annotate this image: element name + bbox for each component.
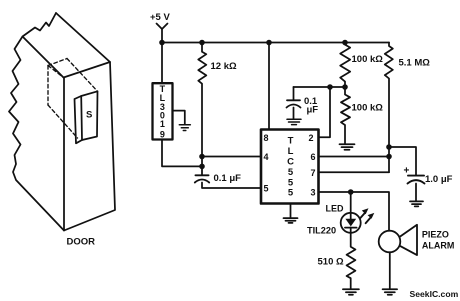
wire +5V rail [162,42,389,44]
wire pin 2 [318,87,330,137]
ground TL3019 [179,125,190,131]
svg-text:DOOR: DOOR [67,237,96,248]
node 1.0uF branch [386,144,392,150]
svg-text:2: 2 [309,133,314,143]
resistor 100k lower [341,88,350,144]
capacitor 0.1uF (pin 5) [195,175,261,188]
svg-text:6: 6 [311,152,316,162]
svg-text:100 kΩ: 100 kΩ [352,54,384,65]
svg-text:7: 7 [311,168,316,178]
capacitor 0.1uF (control) [287,87,301,119]
piezo alarm [379,225,417,255]
svg-text:C: C [287,157,294,168]
wire TL3019 output [162,140,202,167]
svg-text:TIL220: TIL220 [307,226,336,236]
svg-text:T: T [288,136,294,147]
wire TL3019 ground branch [173,111,185,125]
node TL3019 output junction [199,164,205,170]
svg-text:3: 3 [311,188,316,198]
LED TIL220 [341,192,361,233]
svg-text:1.0 μF: 1.0 μF [425,174,453,185]
wire control cap to pin2 node [294,86,331,88]
svg-text:4: 4 [264,152,269,162]
wire rail to pin 8 [266,40,272,130]
op-amp U1 TLC555 [261,130,319,204]
wire junction to 100k chain [330,86,345,88]
wire rail to TL3019 [161,43,163,84]
ground piezo [383,289,398,295]
sensor TL3019 [153,83,173,139]
node +5V [157,24,168,46]
svg-text:8: 8 [264,133,269,143]
wire pin 7 [318,171,389,173]
svg-text:μF: μF [307,105,319,116]
svg-text:9: 9 [160,130,165,140]
svg-text:5.1 MΩ: 5.1 MΩ [399,58,431,69]
svg-text:100 kΩ: 100 kΩ [352,103,384,114]
node 100k junction [342,84,348,90]
svg-text:12 kΩ: 12 kΩ [211,61,237,72]
svg-text:LED: LED [326,204,345,214]
resistor 510 [347,233,356,289]
door outline [9,13,115,231]
svg-text:+5 V: +5 V [150,12,170,23]
svg-text:1: 1 [160,119,165,129]
wire pin 4 [202,156,261,158]
label TL3019 [160,84,166,140]
svg-text:5: 5 [288,167,294,178]
ground 0.1uF control [287,119,301,124]
resistor 100k upper [340,40,350,88]
ground 100k lower [340,144,355,150]
node pin4 junction [199,154,205,160]
label TLC555 [287,136,294,199]
magnet S [75,91,98,143]
svg-text:L: L [288,146,294,157]
svg-text:+: + [404,166,410,177]
LED light arrows [360,208,375,223]
svg-text:0.1 μF: 0.1 μF [214,173,242,184]
resistor 5.1M [385,43,393,173]
svg-text:PIEZO: PIEZO [422,230,449,240]
wire pin 3 [318,192,389,231]
wire to 1.0uF [389,147,416,176]
ground IC [284,204,298,223]
node pin6 junction [386,154,392,160]
svg-text:5: 5 [288,188,294,199]
ground 1.0uF [410,201,423,206]
capacitor 1.0uF [408,176,425,201]
wire piezo to ground [389,252,391,288]
svg-text:5: 5 [264,184,269,194]
svg-text:SeekIC.com: SeekIC.com [410,289,459,299]
resistor 12 k [198,40,206,175]
ground 510 [343,289,359,295]
node pin2 junction [327,84,333,90]
svg-text:S: S [86,110,92,121]
svg-text:ALARM: ALARM [422,240,455,250]
dashed magnet position in door [48,59,98,139]
svg-text:510 Ω: 510 Ω [318,257,344,268]
node LED branch [348,189,354,195]
wire pin 6 [318,156,389,158]
